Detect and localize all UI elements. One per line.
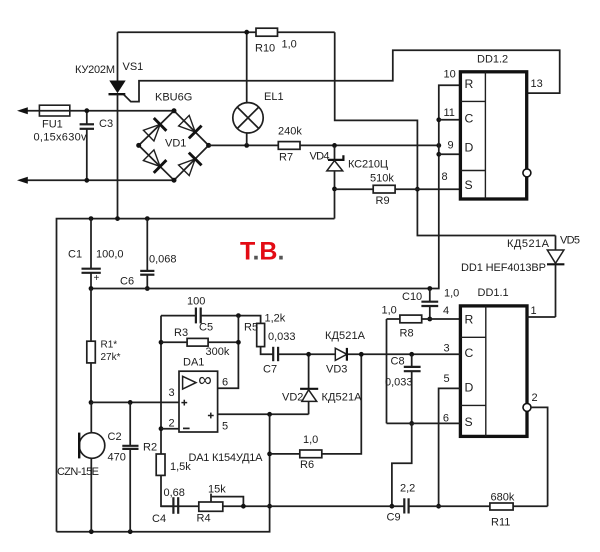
resistor R3 xyxy=(161,327,238,358)
svg-text:R10: R10 xyxy=(255,43,275,55)
svg-text:CZN-15E: CZN-15E xyxy=(57,466,99,478)
wire op-amp pin 3 input net xyxy=(91,400,179,405)
capacitor C1 xyxy=(68,219,124,289)
diode VD2 xyxy=(282,354,362,414)
wire VS1 gate to DD1.2 pin 13 xyxy=(124,50,560,101)
svg-text:R9: R9 xyxy=(376,195,390,207)
wire bottom signal rail (C4/R4/C9/R11) xyxy=(161,505,404,507)
svg-text:5: 5 xyxy=(444,373,450,385)
resistor R8 xyxy=(382,305,461,340)
resistor R11 xyxy=(490,492,515,529)
wire DD1.1 pin 2 to R11 xyxy=(531,407,548,506)
svg-text:C2: C2 xyxy=(108,431,122,443)
svg-text:R5: R5 xyxy=(244,322,258,334)
svg-text:300k: 300k xyxy=(206,346,230,358)
svg-text:D: D xyxy=(465,381,474,395)
wire DD1.2 pin 9 (D) xyxy=(439,153,461,155)
resistor R5 xyxy=(244,313,286,355)
svg-text:VD2: VD2 xyxy=(282,392,303,404)
resistor R4 with tap xyxy=(197,484,246,525)
wire bottom rail xyxy=(57,506,270,534)
svg-text:0,15x630v: 0,15x630v xyxy=(34,132,88,144)
wire VS1 anode top rail to R10 xyxy=(118,31,335,33)
svg-text:EL1: EL1 xyxy=(264,91,284,103)
svg-text:КД521А: КД521А xyxy=(325,330,366,342)
svg-text:C: C xyxy=(465,346,474,360)
svg-text:1,0: 1,0 xyxy=(303,434,318,446)
svg-text:DA1 К154УД1А: DA1 К154УД1А xyxy=(189,452,264,464)
svg-text:3: 3 xyxy=(444,343,450,355)
svg-text:1,0: 1,0 xyxy=(444,288,459,300)
resistor R1 xyxy=(87,289,121,405)
svg-text:VS1: VS1 xyxy=(123,61,144,73)
svg-text:R: R xyxy=(465,313,474,327)
svg-text:C7: C7 xyxy=(263,364,277,376)
wire op-amp pin 6 net xyxy=(218,316,241,389)
svg-text:6: 6 xyxy=(222,377,228,389)
svg-text:C3: C3 xyxy=(99,118,113,130)
svg-text:R1*: R1* xyxy=(101,340,118,351)
svg-text:C6: C6 xyxy=(120,276,134,288)
svg-text:C8: C8 xyxy=(391,356,405,368)
svg-text:2: 2 xyxy=(169,418,175,430)
svg-text:KBU6G: KBU6G xyxy=(155,92,192,104)
svg-text:C4: C4 xyxy=(152,513,166,525)
svg-text:0,033: 0,033 xyxy=(268,331,296,343)
wire mains line L (arrow to bridge top) xyxy=(17,107,174,114)
capacitor C6 xyxy=(120,219,177,291)
svg-text:11: 11 xyxy=(444,107,455,119)
svg-text:КС210Ц: КС210Ц xyxy=(348,159,388,171)
zener diode VD4 xyxy=(310,145,389,218)
resistor R10 xyxy=(255,28,297,54)
capacitor C5 xyxy=(187,296,213,334)
wire op-amp pin 2 xyxy=(161,428,179,430)
svg-text:470: 470 xyxy=(108,452,126,464)
wire R8 left vertical xyxy=(386,319,388,423)
svg-text:R4: R4 xyxy=(197,513,211,525)
resistor R7 xyxy=(278,126,302,164)
wire DD1.1 pin 1 xyxy=(527,316,556,318)
capacitor C3 xyxy=(80,108,113,182)
svg-text:R2: R2 xyxy=(143,442,157,454)
svg-text:КУ202М: КУ202М xyxy=(75,64,115,76)
svg-text:100: 100 xyxy=(187,296,205,308)
svg-text:C9: C9 xyxy=(387,512,401,524)
svg-text:13: 13 xyxy=(531,78,543,90)
svg-text:VD5: VD5 xyxy=(560,235,580,247)
svg-text:VD1: VD1 xyxy=(165,138,186,150)
capacitor C10 xyxy=(402,288,459,322)
svg-text:C5: C5 xyxy=(199,322,213,334)
svg-text:5: 5 xyxy=(222,421,228,433)
wire C8 bottom to C9 left xyxy=(390,423,412,508)
svg-text:510k: 510k xyxy=(370,173,394,185)
svg-text:1: 1 xyxy=(531,305,537,317)
svg-text:R: R xyxy=(465,77,474,91)
svg-text:9: 9 xyxy=(448,140,454,152)
svg-text:27k*: 27k* xyxy=(101,352,121,363)
lamp EL1 xyxy=(233,30,284,146)
wire DD1.1 pin 5 (D net) down to C9 rail xyxy=(436,388,460,508)
svg-text:∞: ∞ xyxy=(198,370,212,391)
svg-text:1,0: 1,0 xyxy=(282,39,297,51)
svg-text:8: 8 xyxy=(442,171,448,183)
wire VD2/R6 vertical xyxy=(267,414,272,508)
IC DD1.2 xyxy=(460,54,531,200)
capacitor C4 xyxy=(152,487,185,525)
wire op-amp output net / pin 5 xyxy=(218,412,309,417)
svg-text:C10: C10 xyxy=(402,291,422,303)
svg-text:S: S xyxy=(465,178,473,192)
svg-text:FU1: FU1 xyxy=(42,119,63,131)
svg-text:10: 10 xyxy=(444,69,456,81)
resistor R6 xyxy=(270,354,362,471)
capacitor C9 xyxy=(387,483,416,524)
svg-text:Т.В.: Т.В. xyxy=(240,238,284,266)
svg-text:R6: R6 xyxy=(300,459,314,471)
diode bridge VD1 KBU6G xyxy=(136,92,211,183)
wire DD1.1 pin 6 (S net) xyxy=(387,422,461,424)
svg-text:100,0: 100,0 xyxy=(96,249,124,261)
svg-text:2: 2 xyxy=(532,392,538,404)
svg-text:+: + xyxy=(94,273,100,284)
resistor R9 xyxy=(335,173,461,208)
capacitor C8 xyxy=(385,354,421,426)
svg-text:1,5k: 1,5k xyxy=(170,461,191,473)
wire VD4 anode rail (left) xyxy=(57,216,335,532)
svg-text:R3: R3 xyxy=(174,327,188,339)
svg-text:DD1.1: DD1.1 xyxy=(478,287,509,299)
wire positive rail y288 to DD1.2 pin bus xyxy=(89,85,461,291)
IC DD1.1 xyxy=(460,287,531,436)
wire bridge right to DD1.2 bus (node 9 net) xyxy=(209,143,442,148)
svg-text:3: 3 xyxy=(169,387,175,399)
diode VD5 xyxy=(507,235,580,318)
wire op-amp left bus (pin 2 net) xyxy=(159,316,173,507)
capacitor C2 xyxy=(108,402,139,531)
svg-text:DA1: DA1 xyxy=(183,357,204,369)
svg-text:D: D xyxy=(465,141,474,155)
wire C7 to DD1.1 pin 3 (C net) xyxy=(278,352,460,357)
bridge diode bottom-right xyxy=(179,153,202,176)
svg-text:240k: 240k xyxy=(278,126,302,138)
svg-text:2,2: 2,2 xyxy=(400,483,415,495)
bridge diode bottom-left xyxy=(143,150,166,173)
fuse FU1 xyxy=(34,105,88,143)
svg-text:VD3: VD3 xyxy=(326,364,347,376)
svg-text:1,2k: 1,2k xyxy=(265,313,286,325)
wire C5 top net xyxy=(161,313,261,323)
thyristor VS1 xyxy=(75,32,143,218)
svg-text:1,0: 1,0 xyxy=(382,305,397,317)
svg-text:0,068: 0,068 xyxy=(149,254,177,266)
svg-text:0,68: 0,68 xyxy=(164,487,185,499)
svg-text:DD1.2: DD1.2 xyxy=(477,54,508,66)
svg-text:DD1 HEF4013BP: DD1 HEF4013BP xyxy=(461,262,546,274)
wire R10 branch down to VD5 line xyxy=(335,32,556,235)
diode VD3 xyxy=(325,330,366,376)
resistor R2 xyxy=(143,442,191,476)
svg-text:R11: R11 xyxy=(491,517,510,529)
svg-text:C: C xyxy=(465,112,474,126)
svg-text:R7: R7 xyxy=(279,152,293,164)
microphone BM1 CZN-15E xyxy=(57,402,105,531)
svg-text:S: S xyxy=(465,415,473,429)
svg-text:КД521А: КД521А xyxy=(322,392,363,404)
svg-text:C1: C1 xyxy=(68,249,82,261)
svg-text:15k: 15k xyxy=(208,484,226,496)
wire DD1.2 pin 11 (C) xyxy=(439,119,461,121)
svg-text:R8: R8 xyxy=(400,328,414,340)
svg-text:4: 4 xyxy=(443,305,449,317)
svg-text:680k: 680k xyxy=(491,492,515,504)
svg-text:КД521А: КД521А xyxy=(507,238,550,250)
capacitor C7 xyxy=(263,331,296,376)
op-amp DA1 xyxy=(179,357,218,433)
bridge diode top-left xyxy=(143,118,166,141)
wire mains line N (arrow to bridge bottom) xyxy=(17,177,174,184)
svg-text:VD4: VD4 xyxy=(310,151,330,163)
svg-text:0,033: 0,033 xyxy=(385,377,413,389)
bridge diode top-right xyxy=(179,115,202,138)
